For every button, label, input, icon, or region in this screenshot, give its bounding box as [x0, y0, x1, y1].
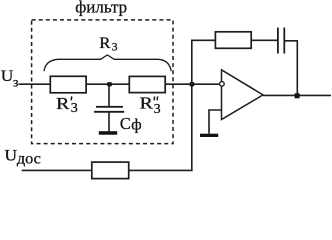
wire: feedback top horizontal to resistor: [191, 39, 215, 41]
capacitor (feedback) right plate: [283, 28, 285, 54]
brace over R'3 and R''3: [44, 55, 171, 71]
capacitor Cf top plate: [96, 106, 123, 108]
label R'3: [56, 94, 78, 116]
svg-text:3: 3: [71, 101, 78, 116]
resistor (feedback): [215, 32, 251, 49]
junction node: output: [295, 93, 300, 98]
svg-text:дос: дос: [17, 150, 41, 167]
label Uдос: [5, 148, 41, 168]
wire: R'3 to R''3: [86, 83, 129, 85]
resistor (Uдос path): [92, 162, 129, 179]
svg-text:фильтр: фильтр: [75, 0, 127, 16]
wire: non-inverting input step to ground: [209, 110, 222, 134]
wire: feedback resistor to capacitor: [251, 39, 278, 41]
wire: op-amp output: [263, 94, 331, 96]
svg-text:С: С: [120, 114, 131, 133]
svg-text:3: 3: [154, 102, 161, 117]
svg-text:U: U: [5, 148, 18, 165]
wire: capacitor to ground bar: [108, 112, 110, 132]
op-amp triangle: [222, 70, 264, 120]
label Cф: [120, 114, 142, 134]
ground bar (filter capacitor): [99, 131, 117, 135]
junction node: summing point: [190, 82, 195, 86]
capacitor Cf bottom plate: [94, 111, 124, 113]
wire: feedback capacitor to output node: [284, 41, 297, 96]
resistor R'3: [50, 76, 86, 93]
ground bar (op-amp non-inverting input): [200, 134, 218, 137]
label R3: [99, 35, 118, 53]
svg-text:R: R: [140, 94, 154, 113]
junction node: capacitor tap: [107, 82, 112, 86]
svg-text:3: 3: [112, 41, 118, 53]
label R''3: [140, 94, 161, 118]
svg-text:R: R: [56, 94, 70, 113]
wire: summing node vertical (feedback top to Uдос bottom): [191, 40, 193, 170]
op-amp inverting input bubble: [220, 82, 225, 87]
label U3 (input): [1, 68, 19, 91]
capacitor (feedback) left plate: [277, 28, 279, 54]
svg-text:ф: ф: [131, 117, 141, 134]
wire: bottom resistor to summing node: [129, 169, 193, 171]
svg-text:R: R: [99, 35, 111, 52]
filter boundary box (dashed): [32, 20, 173, 144]
wire: Uдос to bottom resistor: [22, 169, 92, 171]
svg-text:з: з: [13, 76, 19, 91]
resistor R''3: [129, 76, 165, 92]
wire: U3 input to R'3: [19, 83, 51, 85]
wire: R''3 to summing node and op-amp input: [165, 83, 220, 85]
wire: tap down to capacitor: [108, 84, 110, 106]
